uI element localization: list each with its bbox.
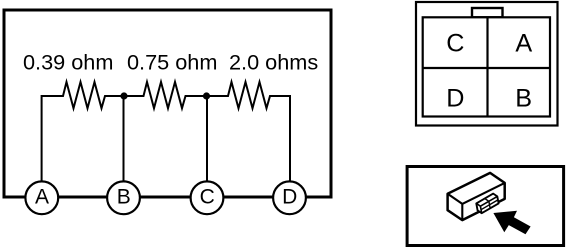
svg-text:D: D: [446, 84, 464, 112]
svg-text:0.39 ohm: 0.39 ohm: [23, 50, 113, 75]
svg-text:D: D: [282, 185, 297, 208]
svg-text:B: B: [515, 84, 532, 112]
svg-text:2.0 ohms: 2.0 ohms: [229, 50, 318, 75]
svg-text:A: A: [515, 30, 532, 58]
svg-text:C: C: [200, 185, 215, 208]
svg-text:B: B: [117, 185, 131, 208]
svg-text:C: C: [446, 30, 464, 58]
svg-text:A: A: [35, 185, 49, 208]
svg-text:0.75 ohm: 0.75 ohm: [127, 50, 217, 75]
